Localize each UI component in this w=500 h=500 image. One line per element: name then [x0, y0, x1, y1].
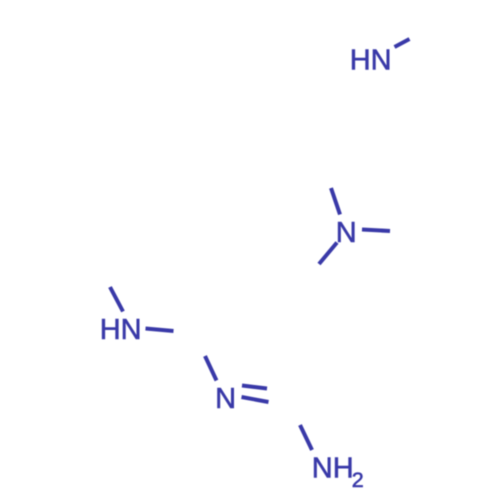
svg-text:N: N: [215, 383, 236, 415]
svg-text:HN: HN: [100, 314, 142, 346]
svg-text:NH: NH: [312, 452, 354, 484]
svg-text:2: 2: [352, 468, 364, 492]
svg-text:N: N: [336, 217, 357, 249]
svg-text:HN: HN: [350, 44, 392, 76]
